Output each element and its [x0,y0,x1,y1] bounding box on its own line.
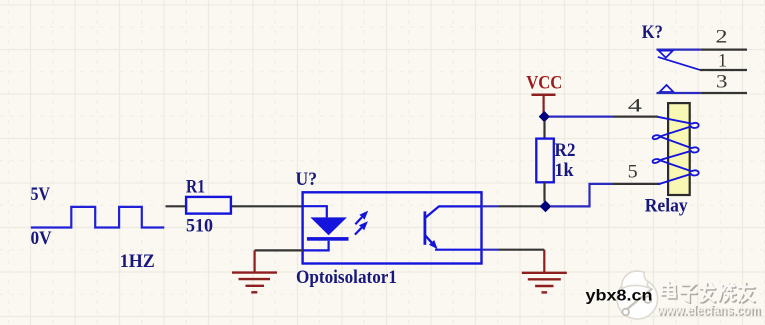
svg-text:1: 1 [718,51,727,72]
photon arrow upper [355,217,362,224]
contact triangle up [660,85,674,92]
svg-text:Relay: Relay [645,196,688,217]
switch pin 1 [700,69,747,71]
node junction VCC/R2/pin4 [539,111,550,122]
svg-text:4: 4 [628,95,643,116]
phototransistor collector [425,206,481,218]
svg-text:0V: 0V [31,228,52,249]
svg-text:3: 3 [716,71,728,92]
svg-text:1k: 1k [555,160,574,181]
photon arrow lower [355,228,362,235]
svg-text:R1: R1 [186,176,205,197]
wire to relay pin 5 [551,184,612,207]
relay body [668,103,690,195]
switch lever [658,57,700,70]
svg-text:2: 2 [716,26,728,47]
wire collector out [481,205,499,207]
wire input to R1 to optoisolator [166,205,303,207]
LED triangle [310,217,347,235]
switch pin 3 [657,92,701,94]
watermark chinese text [663,283,755,302]
LED cathode lead [303,241,329,251]
svg-text:Optoisolator1: Optoisolator1 [296,267,397,288]
watermark logo [617,271,658,319]
svg-text:5V: 5V [31,184,51,205]
relay coil [653,117,699,184]
wire to relay pin 4 [549,115,613,117]
svg-text:R2: R2 [555,140,576,161]
LED anode lead [303,206,327,217]
emitter lead to box edge [435,249,481,251]
wire LED cathode to ground [255,249,303,251]
svg-text:K?: K? [642,22,663,43]
svg-text:ybx8.cn: ybx8.cn [586,288,653,305]
resistor R2 [543,121,545,139]
switch common pin 2 [657,48,701,50]
svg-text:U?: U? [296,169,318,190]
svg-text:www.elecfans.com: www.elecfans.com [656,301,760,317]
optoisolator U? body [303,192,482,263]
phototransistor base bar [423,211,426,244]
resistor R1 [186,197,231,214]
LED cathode bar [307,237,349,241]
node junction R2/opto/relay [540,201,552,213]
svg-text:5: 5 [628,162,638,183]
wire emitter out [481,249,499,251]
svg-text:1HZ: 1HZ [120,251,155,272]
ground left [232,250,277,292]
contact triangle down [659,51,673,58]
emitter arrowhead [425,235,432,242]
phototransistor emitter [425,235,432,243]
square wave signal 1HZ [31,207,165,228]
svg-text:VCC: VCC [526,73,562,94]
ground right [522,250,567,293]
svg-text:510: 510 [186,215,213,236]
